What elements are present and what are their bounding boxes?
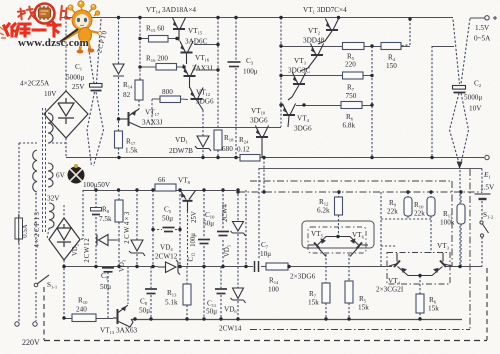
capacitor C7 10u [255, 261, 259, 272]
wire: top positive bus [60, 17, 485, 20]
watermark mascot [60, 1, 102, 54]
wire: aux column x204 C12 [203, 190, 205, 267]
wire: C1 crossing lead A [84, 19, 95, 166]
opamp box VT5 VT6 inner dashed [308, 227, 366, 253]
wire: R12 column x338.5 [338, 192, 340, 236]
watermark blob over 6V winding [68, 164, 85, 184]
wire: aux column x246 [245, 190, 247, 267]
wire: bridge2 top vertex stub [63, 205, 65, 218]
wire: row y105 [296, 105, 372, 107]
transistor VT16 3AX3J [183, 65, 196, 89]
wire: C2 crossing lead B [461, 19, 470, 164]
wire: R9 R10 bottom row y219 [381, 218, 431, 220]
terminal 220V left [15, 322, 19, 326]
wire: R11 column x461 [460, 192, 462, 267]
wire: C3 column x236 [235, 18, 237, 158]
wire: VT13 collector stub x128 [127, 267, 129, 305]
resistor 66 [155, 184, 176, 191]
transistor VT4 pair left [389, 253, 420, 276]
resistor R12 6.2k [335, 197, 343, 215]
wire: y246 stub to diff pair 2 [381, 245, 397, 247]
opamp box VT5 VT6 outer [302, 221, 374, 248]
capacitor C11 50u [215, 289, 227, 294]
opamp box VT3 VT4 chain outline [387, 253, 450, 285]
wire: dashed enclosure border bottom [44, 340, 487, 342]
transistor VT4 3DG6 [282, 104, 295, 128]
terminal 220V right [33, 322, 37, 326]
wire: R15 leads [140, 38, 177, 40]
resistor R8 7.5k [115, 200, 123, 222]
junction dots top area [64, 16, 433, 159]
transistor VT5 [308, 237, 338, 257]
wire: row y127 VT17 to VT10 [141, 127, 281, 129]
transistor VT2 3DD48 [300, 44, 324, 72]
wire: x432 column [431, 46, 433, 158]
wire: aux column x119 R8 [118, 190, 120, 267]
wire: VD1 column x203 [202, 110, 204, 158]
wire: R9 column x408 [407, 192, 409, 219]
resistor R17 1.5k [115, 131, 123, 148]
wire: chain column x470 [469, 169, 471, 329]
capacitor C10 50u [217, 232, 229, 236]
transistor VT8 [181, 191, 196, 212]
wire: R15k-b column x349 [348, 254, 350, 319]
capacitor C8 50u [145, 289, 157, 294]
wire: VD6 column x238 [237, 267, 239, 320]
capacitor C2 5000u 10V [453, 86, 466, 93]
zener 2CW12 horizontal y240 [97, 235, 116, 246]
wire: diode 2CP10 / R17 column x118.5 [118, 18, 120, 158]
wire: y168 rail [259, 168, 482, 170]
wire: bridge2 minus column x64 [63, 260, 65, 318]
resistor R14 82 [135, 80, 143, 100]
capacitor C12 100u 25V [198, 240, 210, 244]
capacitor C4 100u50V [91, 208, 102, 215]
watermark weikuyixia characters [4, 24, 60, 36]
wire: R15 R16 left column x140 [139, 18, 141, 81]
junction dots mid and bottom [62, 188, 462, 320]
wire: aux column x223 C10 [222, 190, 224, 267]
watermark magnifier circle logo [35, 4, 58, 28]
wire: chain line y329 [250, 329, 470, 331]
switch S1-1 [34, 275, 49, 287]
resistor R24 0.12 [240, 155, 260, 162]
transistor VT13 3AX63 [113, 305, 133, 327]
resistor R11 100k [457, 204, 465, 224]
wire: VT16 collector row [196, 69, 218, 71]
resistor R16 200 [156, 64, 177, 71]
wire: 800 left column [151, 99, 153, 127]
transistor VT12 3DG6 [190, 88, 203, 111]
resistor R15k-b [345, 281, 353, 303]
switch S1-2 [480, 221, 489, 237]
wire: 220V right lead / switch column [35, 193, 37, 321]
transformer secondary winding 6V [48, 163, 53, 187]
wire: aux column x137 zener [136, 190, 138, 267]
transformer T1 core [43, 108, 46, 232]
resistor R9 22k [404, 197, 412, 216]
wire: C2 arrow tip [457, 162, 463, 170]
transistor VT15 3AD6C [180, 41, 193, 64]
wire: emitter resistor junction column x372 [371, 46, 373, 158]
resistor 800 [160, 96, 181, 103]
wire: C1 crossing lead B [94, 19, 104, 166]
wire: x460 link [459, 170, 461, 267]
wire: row y75 [281, 75, 372, 77]
resistor R10b 240 [72, 314, 96, 322]
wire: aux column x180 [179, 190, 181, 267]
wire: aux column x153 [152, 190, 154, 267]
zener VD1 2DW7B [195, 136, 211, 151]
wire: chain column x452 [451, 181, 453, 267]
zener VD5 2CW4 [231, 222, 246, 237]
resistor R6 6.8k [341, 102, 362, 109]
resistor R15 60 [149, 36, 169, 43]
resistor R5 220 [343, 43, 365, 50]
wire: chain link line y192 [238, 191, 482, 193]
wire: R10 column x431 [430, 192, 432, 253]
wire: x204 lower column [203, 267, 205, 320]
diode VD 2CP10 [113, 64, 124, 76]
capacitor C1 5000u 25V [90, 84, 103, 91]
wire: dashed enclosure border left [43, 287, 45, 340]
transistor VT14 3AD18A [172, 18, 185, 42]
wire: R15k-c column x420 [419, 276, 421, 319]
wire: VT8 emitter column x190 [187, 211, 189, 267]
wire: zener row y240 [96, 239, 119, 241]
resistor R13 5.1k [183, 284, 191, 305]
wire: C7 column x259 [258, 168, 260, 260]
transformer secondary winding 32V [49, 203, 54, 228]
wire: R13 column x187 [186, 267, 188, 320]
resistor R10 22k [427, 197, 435, 216]
resistor R15k-c [416, 294, 424, 313]
wire: R14 to VT17 collector [138, 100, 140, 109]
capacitor C9 50u [102, 268, 114, 272]
wire: VT chain left column x281 [280, 18, 282, 128]
wire: R15k-a column x326 [325, 254, 327, 319]
resistor R7 750 [343, 72, 364, 79]
bridge rectifier VD 4x2CZ5A [44, 91, 88, 138]
capacitor C3 100u [228, 62, 241, 67]
wire: bridge2 output to rail x83 [81, 190, 83, 239]
wire: bottom bus y319 [131, 319, 462, 321]
wire: emitter-resistor row y46 [281, 46, 454, 48]
wire: C11 column x221 [220, 267, 222, 320]
wire: x264 stub [263, 158, 265, 193]
capacitor C5 50u [163, 228, 175, 232]
zener VD4 2CW12 horizontal y267 [158, 260, 182, 275]
watermark speed strokes [0, 27, 6, 38]
wire: bridge2 left vertex link to coil [47, 228, 49, 239]
transistor VT3 3DG3C [288, 73, 306, 101]
wire: 800 leads [152, 98, 188, 101]
transistor VT6 [338, 237, 368, 257]
wire: C9 column x108 [107, 272, 109, 319]
wire: x381 column [380, 192, 382, 267]
bridge rectifier VD2 4x2CP13 [49, 218, 80, 260]
transformer primary winding 220V [33, 150, 37, 192]
wire: aux column x238 VD5 [237, 190, 239, 267]
wire: VT15 collector row [194, 44, 218, 46]
wire: battery switch column x482 [481, 169, 483, 267]
transistor VT1 3DD7C [318, 19, 339, 45]
wire: C8 column x151 [150, 267, 152, 320]
wire: C2 crossing lead A [450, 20, 460, 164]
wire: C5 link row y229.5 [153, 229, 180, 231]
scan noise overlay [0, 0, 1, 1]
terminal output minus [485, 155, 489, 159]
wire: R4 right to bus x410 [401, 19, 410, 46]
battery E1 1.5V [475, 194, 491, 199]
transistor VT3 pair right [420, 253, 452, 276]
watermark pian character [60, 6, 70, 21]
wire: aux column x96 with C4 [95, 190, 97, 267]
wire: aux negative rail y266.5 [64, 266, 482, 268]
zener 2CW4 x137 [129, 240, 145, 256]
wire: R16 leads [140, 66, 184, 68]
resistor R15k-a [322, 283, 330, 303]
wire: aux supply top rail y190 [83, 190, 236, 192]
wire: R18 column x220 [217, 18, 219, 158]
wire: negative bus y158 [66, 157, 484, 159]
transformer secondary winding 10V [48, 113, 53, 143]
zener VD6 2CW14 [231, 288, 246, 303]
wire: 220V left lead with fuse column [19, 143, 37, 321]
transistor VT10 3DG6 [255, 126, 268, 158]
terminal output plus [485, 16, 489, 20]
wire: chain link line y181 [250, 180, 452, 182]
wire: dashed enclosure border right [486, 268, 488, 340]
fuse 0.5A [15, 214, 23, 243]
resistor R18 680 [214, 130, 222, 150]
wire: bridge1 bottom link to coil [48, 142, 66, 144]
watermark logo zhao character [17, 6, 34, 20]
resistor R 100 [266, 263, 288, 270]
transistor VT17 3AX3J [119, 109, 142, 128]
wire: VT13 base row y318 [64, 318, 113, 320]
wire: bridge1 plus column x66 [65, 18, 67, 158]
resistor R4 150 [381, 43, 401, 50]
